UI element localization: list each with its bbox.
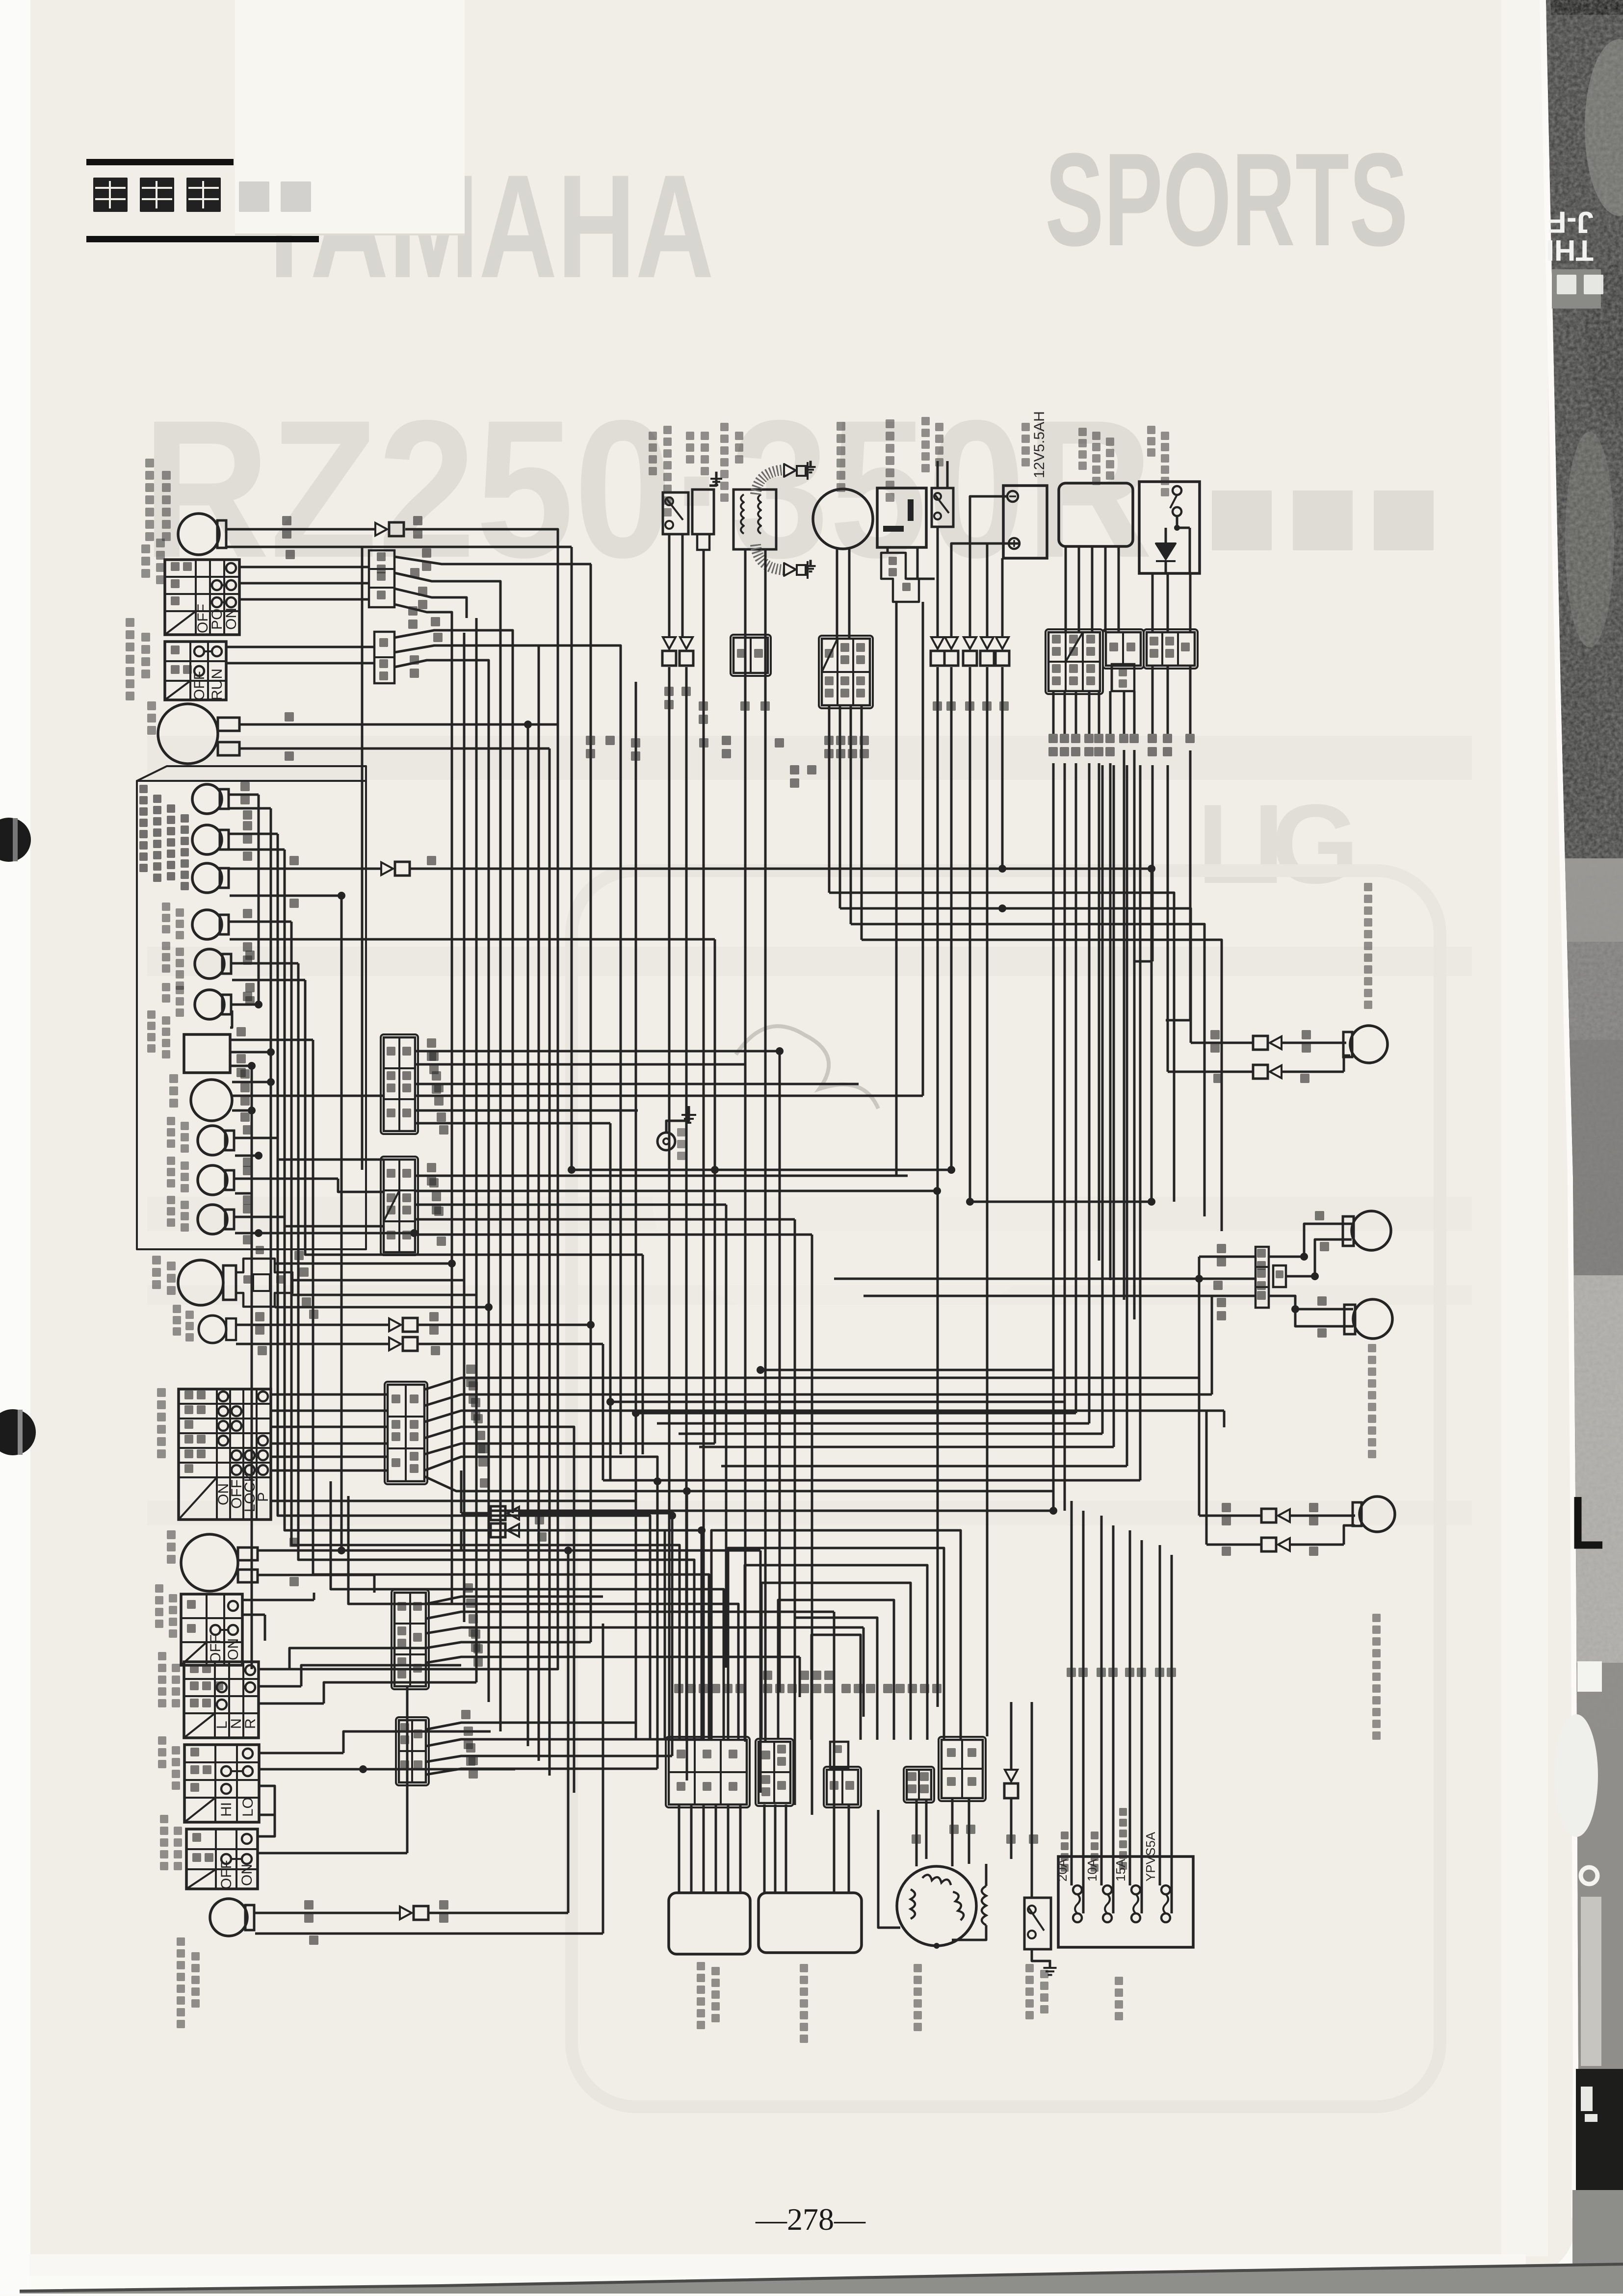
wire x=1244 bbox=[609, 1123, 612, 1480]
wire x=921 bbox=[451, 633, 453, 1605]
wire elbow x=552 bbox=[271, 1411, 636, 1740]
lamp rear flasher left リヤフラッシャランプ(左) bbox=[1360, 1496, 1395, 1532]
wire 濃緑 rear flasher R feed bbox=[227, 528, 375, 531]
svg-text:THI: THI bbox=[1546, 234, 1594, 267]
lamp rear flasher right (top-left) bbox=[178, 514, 219, 555]
wire 黒 bbox=[230, 895, 341, 897]
wire x=2297 bbox=[1126, 765, 1128, 1466]
group box indicator lamps bbox=[137, 766, 366, 1249]
svg-text:HI: HI bbox=[218, 1802, 235, 1817]
wire h y=2385 bbox=[572, 1169, 951, 1171]
wire elbow x=710 bbox=[348, 1496, 738, 1740]
nested loop wires bbox=[711, 1530, 961, 1740]
switch light ライトスイッチ bbox=[165, 560, 239, 635]
wire x=1655 bbox=[811, 1235, 813, 1815]
wire x=996 bbox=[488, 682, 490, 1702]
fuse 20A bbox=[1073, 1885, 1082, 1894]
wire h y=3040 bbox=[687, 1490, 1053, 1493]
battery バッテリ 12V5.5AH bbox=[1003, 486, 1047, 558]
label ライトスイッチ bbox=[141, 544, 150, 553]
wire x=1630 bbox=[799, 1657, 801, 1697]
ignition coil イグニッションコイル bbox=[733, 490, 776, 549]
marker lamp マーカランプ bbox=[199, 1316, 226, 1343]
title bars and text 電装配線図 bbox=[86, 159, 234, 165]
svg-text:15A: 15A bbox=[1113, 1858, 1128, 1882]
connector light switch bbox=[369, 550, 394, 607]
wire x=1204 bbox=[590, 564, 592, 1642]
label エンジンストップスイッチ bbox=[126, 618, 134, 627]
svg-text:10A: 10A bbox=[1085, 1858, 1099, 1882]
speed warning unit 速度警告ユニット bbox=[184, 1034, 230, 1073]
switch engine stop エンジンストップスイッチ bbox=[165, 642, 226, 700]
wire elbow x=594 bbox=[291, 1444, 680, 1740]
svg-text:SPORTS: SPORTS bbox=[1045, 126, 1408, 274]
wire x=1430 bbox=[701, 1530, 703, 1739]
connector meters upper bbox=[381, 1034, 418, 1134]
ground アース bbox=[657, 1133, 675, 1150]
wire x=1457 bbox=[714, 939, 716, 1444]
svg-text:RUN: RUN bbox=[209, 669, 225, 700]
wire x=1120 bbox=[549, 780, 551, 1776]
AC magnet ACマグネト bbox=[897, 1866, 976, 1946]
connector YPVS motor bbox=[819, 636, 873, 708]
connector ignition coil bbox=[731, 635, 771, 676]
switch passing パッシングスイッチ bbox=[186, 1829, 258, 1889]
wire x=946 bbox=[463, 633, 466, 1622]
long verticals misc bbox=[361, 547, 364, 1170]
neutral switch ニュートラルスイッチ bbox=[1024, 1898, 1051, 1949]
svg-text:LO: LO bbox=[240, 1797, 256, 1817]
svg-text:—278—: —278— bbox=[755, 2202, 866, 2237]
connector headlight bbox=[236, 1259, 292, 1307]
svg-text:LIG: LIG bbox=[1197, 781, 1359, 907]
wire x=1076 bbox=[527, 724, 529, 1746]
wire elbow x=674 bbox=[331, 1481, 724, 1740]
connector AC magnet A bbox=[904, 1767, 934, 1803]
wire x=1519 bbox=[744, 1099, 747, 1742]
wire x=2147 bbox=[1052, 765, 1055, 1511]
fuse box ヒューズ bbox=[1058, 1857, 1193, 1947]
lamp flasher pilot left bbox=[192, 825, 222, 854]
taped overlay paper bbox=[235, 0, 465, 234]
connector engine stop bbox=[374, 632, 394, 683]
connector CDI B bbox=[824, 1767, 861, 1807]
svg-text:ON: ON bbox=[225, 1638, 241, 1660]
wire x=1296 bbox=[635, 682, 637, 1723]
wire h y=2923 bbox=[679, 1433, 1102, 1435]
svg-text:J-F: J-F bbox=[1548, 205, 1594, 239]
connector YPVS control 2 bbox=[1103, 629, 1144, 669]
svg-text:YPVS5A: YPVS5A bbox=[1143, 1832, 1158, 1882]
wire x=1400 bbox=[686, 1491, 688, 1780]
water temp meter 水温計 bbox=[191, 1080, 232, 1121]
lamp rear flasher right リヤフラッシャランプ(右) bbox=[1350, 1026, 1387, 1063]
wire x=1265 bbox=[620, 667, 622, 1454]
thermo unit サーモユニット bbox=[692, 490, 714, 534]
lamp front flasher left フロントフラッシャランプ(左) bbox=[210, 1899, 247, 1936]
wire 黒 bbox=[227, 546, 572, 548]
wire x=2193 bbox=[1075, 765, 1077, 1413]
fuse 15A bbox=[1131, 1885, 1140, 1894]
wire h y=3080 bbox=[491, 1510, 1053, 1512]
wire 茶 horn bbox=[239, 723, 559, 726]
horn ホーン bbox=[158, 704, 218, 764]
wire x=2324 bbox=[1139, 765, 1142, 1480]
svg-text:OFF: OFF bbox=[218, 1860, 235, 1889]
switch horn ホーンスイッチ bbox=[181, 1594, 242, 1665]
connector YPVS control bbox=[1046, 629, 1103, 694]
wire x=971 bbox=[475, 618, 478, 1682]
wire x=2170 bbox=[1064, 765, 1066, 1402]
fuse 10A bbox=[1103, 1885, 1112, 1894]
connector main switch bbox=[385, 1382, 427, 1484]
wire x=1098 bbox=[538, 645, 540, 1761]
bottom scan bar bbox=[29, 2254, 1526, 2276]
wire x=2270 bbox=[1113, 765, 1115, 1447]
wire h y=2950 bbox=[699, 1446, 1114, 1448]
switch main メインスイッチ bbox=[179, 1389, 271, 1520]
wire h y=2881 bbox=[636, 1412, 1076, 1415]
lamp neutral ニュートラルランプ bbox=[195, 949, 224, 979]
svg-text:OFF: OFF bbox=[208, 1634, 224, 1664]
wire x=2220 bbox=[1088, 765, 1091, 1423]
svg-text:ON: ON bbox=[239, 1864, 255, 1886]
connector tail lamps bbox=[1256, 1247, 1269, 1308]
svg-text:OFF: OFF bbox=[191, 671, 208, 700]
wire x=1020 bbox=[499, 608, 502, 1731]
wire h y=2989 bbox=[721, 1465, 1127, 1468]
wire x=1480 bbox=[725, 1205, 728, 1668]
connector meters lower bbox=[381, 1157, 418, 1255]
wire h y=2558 bbox=[305, 1254, 643, 1256]
wire h y=2858 bbox=[610, 1401, 1065, 1403]
svg-text:12V5.5AH: 12V5.5AH bbox=[1031, 411, 1047, 478]
wire x=1550 bbox=[759, 1550, 762, 1793]
lamp oil warning オイル警告灯 bbox=[192, 910, 222, 939]
wire x=1370 bbox=[671, 1516, 674, 1756]
svg-text:P: P bbox=[255, 1492, 271, 1502]
lamp meter 3 メータランプ bbox=[198, 1205, 227, 1234]
wire elbow x=638 bbox=[313, 1470, 709, 1740]
motor YPVS モータ bbox=[813, 489, 873, 549]
label リヤフラッシャランプ(右) bbox=[145, 459, 154, 467]
lamp flasher pilot right bbox=[192, 784, 222, 814]
switch front stop フロントストップスイッチ bbox=[663, 492, 688, 534]
connector handlebar switches L bbox=[392, 1590, 429, 1689]
switch dimmer ディマスイッチ bbox=[184, 1745, 259, 1822]
wire x=1045 bbox=[512, 652, 514, 1513]
connector pair below main switch bbox=[491, 1506, 505, 1520]
wire h y=3018 bbox=[603, 1479, 1140, 1482]
lamp speed warning 速度警告灯 bbox=[195, 990, 224, 1019]
wire x=1170 bbox=[573, 1452, 576, 1793]
connector oil gauge bbox=[1144, 629, 1198, 669]
lamp meter 1 メータランプ bbox=[198, 1126, 227, 1155]
oil level gauge オイルレベルゲージ bbox=[1139, 482, 1200, 573]
wire h y=2450 bbox=[970, 1201, 1152, 1203]
wire 桃 horn bbox=[239, 748, 550, 750]
wire x=1340 bbox=[656, 1481, 659, 1769]
wire x=1620 bbox=[794, 1219, 796, 1805]
headlight ヘッドライト bbox=[178, 1260, 223, 1305]
wire elbow x=580 bbox=[285, 1427, 665, 1740]
lamp meter 2 メータランプ bbox=[198, 1165, 227, 1195]
wire x=2247 bbox=[1101, 765, 1104, 1434]
connector handlebar switches L2 bbox=[396, 1717, 429, 1785]
YPVS control unit コントロールユニット bbox=[1059, 483, 1133, 546]
horn ホーン (lower) bbox=[181, 1534, 238, 1591]
spark plug leads bbox=[756, 470, 785, 494]
wire elbow x=566 bbox=[278, 1394, 650, 1740]
external stator coil bbox=[982, 1886, 986, 1925]
connector CDI A bbox=[756, 1739, 793, 1806]
wire elbow x=608 bbox=[298, 1457, 694, 1740]
wire x=1760 bbox=[863, 1627, 865, 1717]
wire h y=2793 bbox=[760, 1369, 1053, 1371]
wire x=1310 bbox=[642, 1255, 644, 1454]
connector rectifier bbox=[666, 1737, 750, 1807]
svg-text:R: R bbox=[242, 1718, 259, 1729]
connector AC magnet B bbox=[939, 1737, 986, 1801]
switch flasher フラッシャスイッチ bbox=[184, 1662, 259, 1738]
tail/stop lamps テール/ストップランプ bbox=[1352, 1211, 1391, 1250]
wire 黄 high beam bbox=[230, 868, 381, 870]
svg-text:ON: ON bbox=[223, 608, 239, 630]
wire x=1589 bbox=[779, 1051, 781, 1692]
wire x=1700 bbox=[833, 1612, 836, 1825]
binder hole shadows bbox=[0, 818, 31, 862]
fuse 5A bbox=[1161, 1885, 1170, 1894]
connector flasher relay bbox=[881, 553, 919, 602]
lamp high beam ハイビーム bbox=[192, 863, 222, 893]
svg-text:20A: 20A bbox=[1055, 1858, 1070, 1882]
switch rear stop リヤストップスイッチ bbox=[932, 488, 953, 527]
flasher relay フラッシャリレー bbox=[877, 488, 926, 547]
wire h y=2902 bbox=[657, 1422, 1089, 1425]
